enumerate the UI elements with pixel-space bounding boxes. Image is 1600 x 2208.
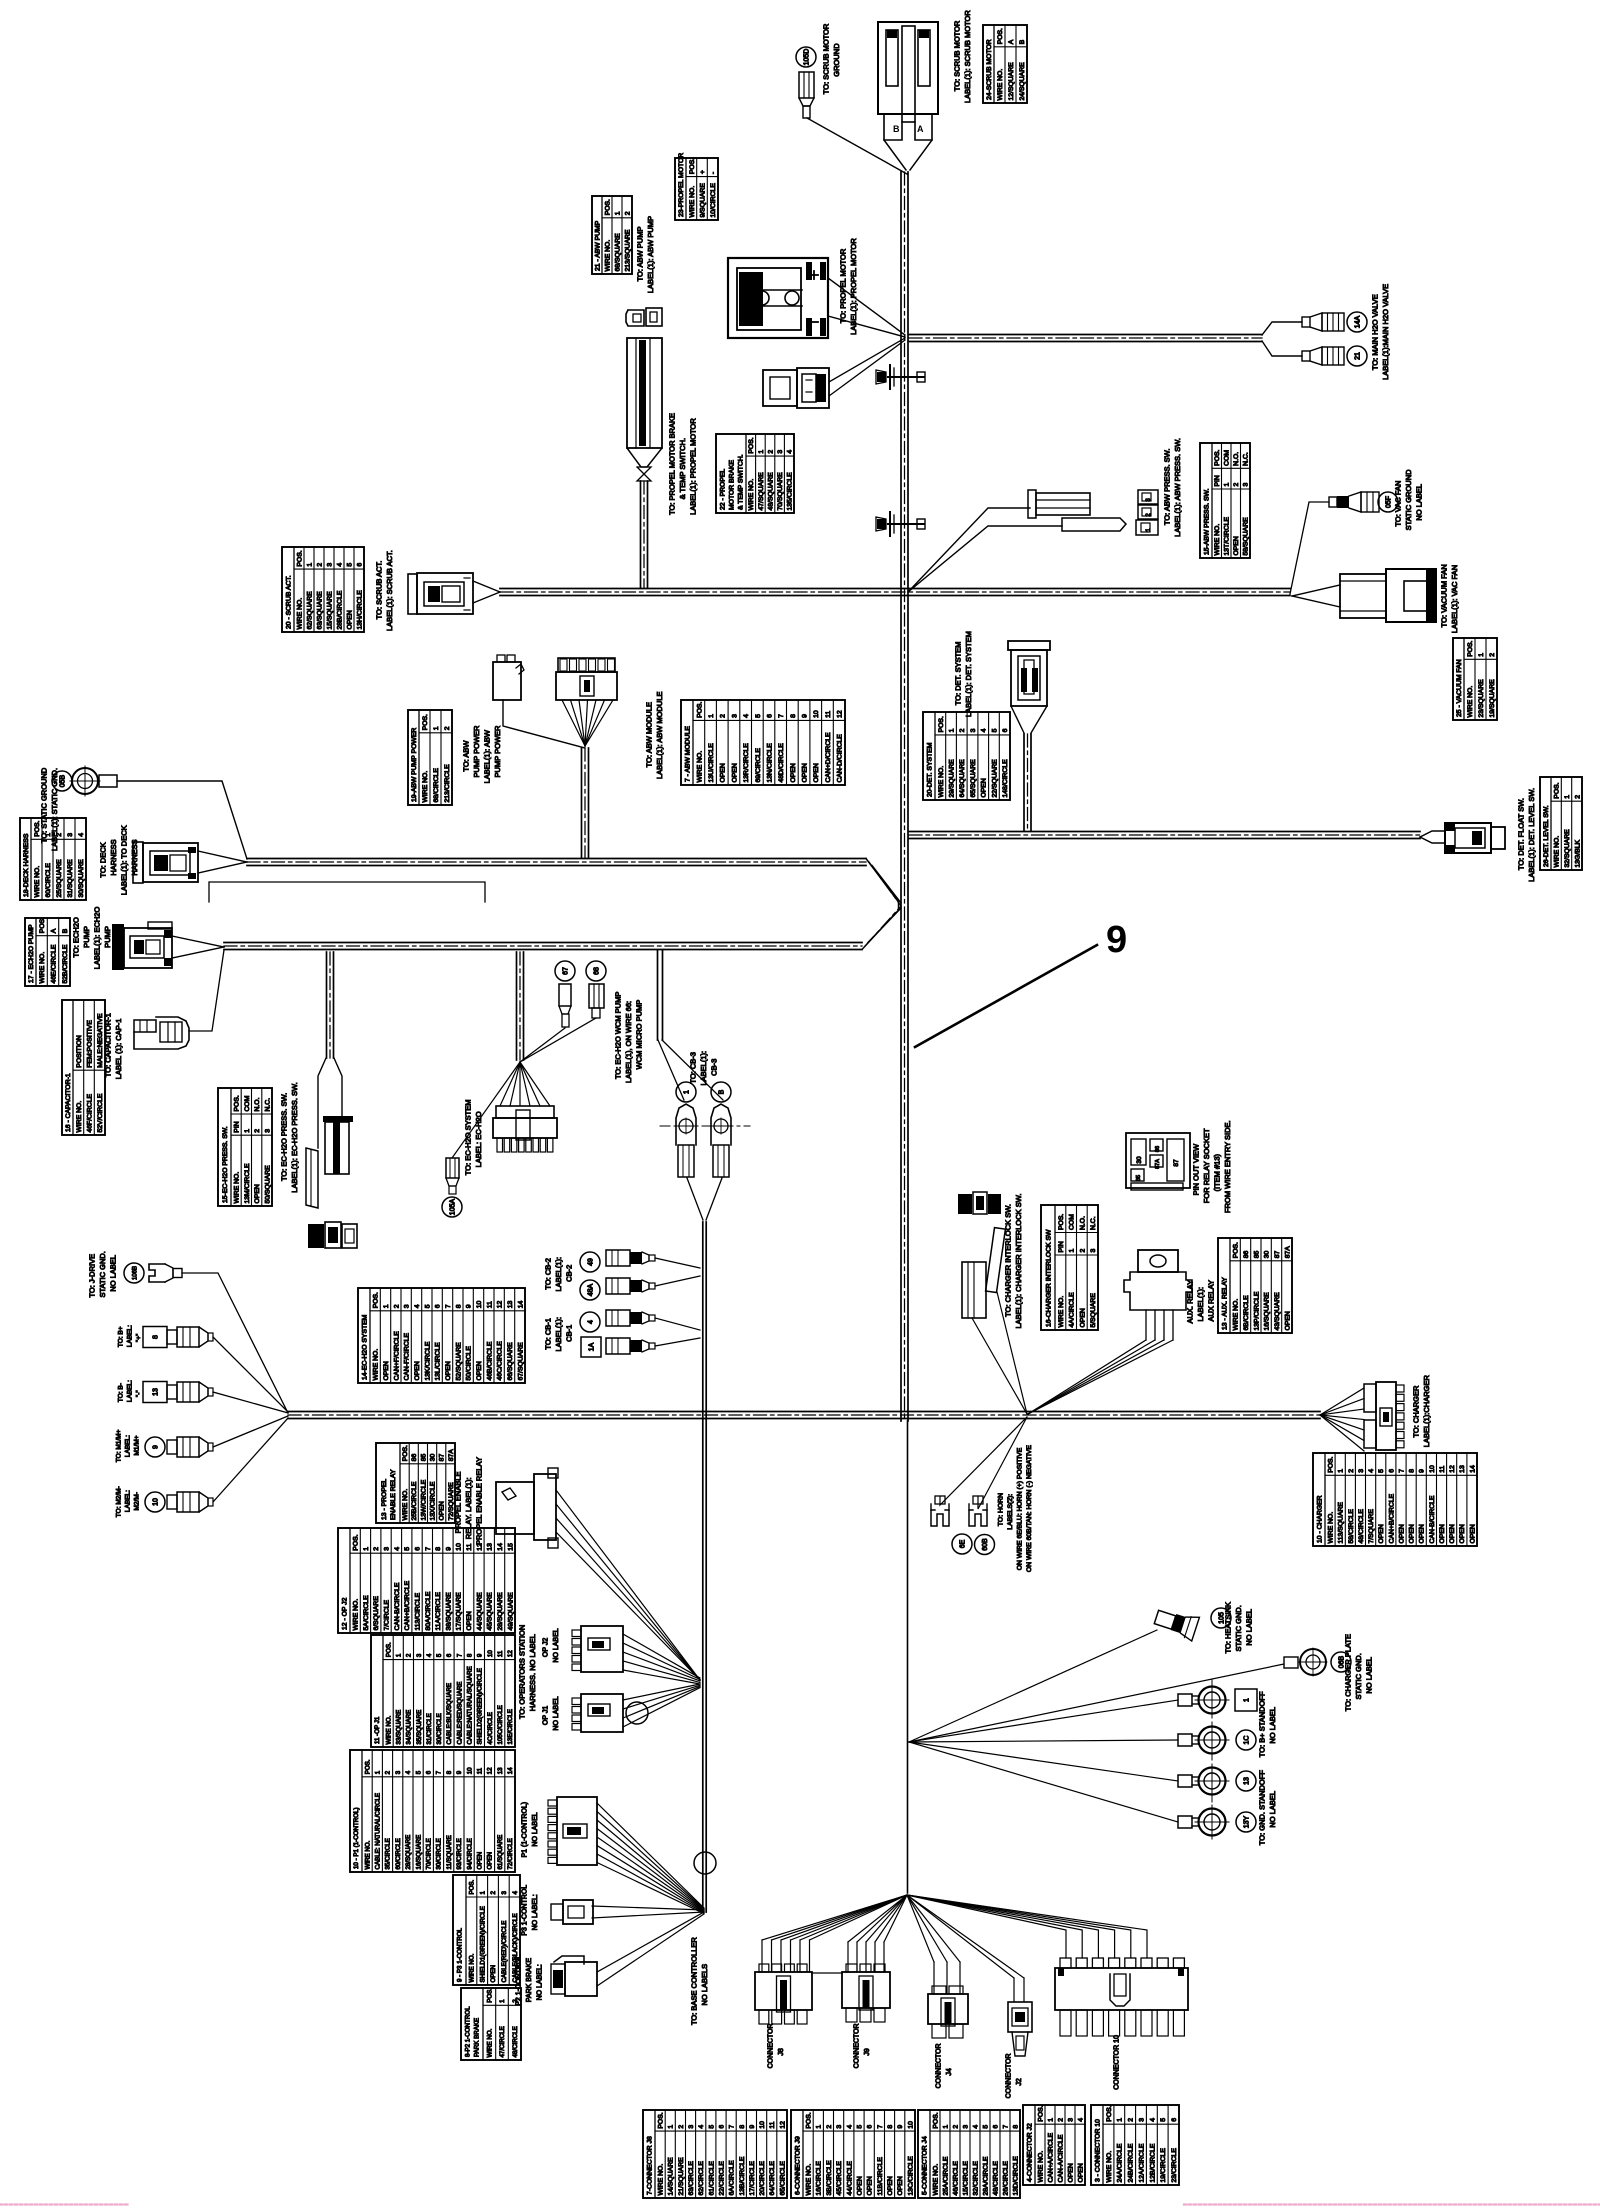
svg-text:1: 1 — [306, 563, 313, 567]
svg-text:4: 4 — [426, 1653, 433, 1657]
svg-text:2: 2 — [952, 2125, 959, 2129]
svg-text:ON WIRE 60B/TAN: HORN (-) NEGA: ON WIRE 60B/TAN: HORN (-) NEGATIVE — [1026, 1445, 1033, 1572]
svg-text:POS.: POS. — [234, 1095, 241, 1111]
svg-text:WIRE NO.: WIRE NO. — [1467, 686, 1474, 718]
svg-text:COM: COM — [244, 1095, 251, 1111]
svg-text:2: 2 — [1574, 795, 1581, 799]
svg-text:TO: SCRUB ACT.: TO: SCRUB ACT. — [375, 561, 384, 620]
svg-text:PIN: PIN — [234, 1121, 241, 1132]
svg-text:86: 86 — [411, 1454, 418, 1462]
svg-text:46C/CIRCLE: 46C/CIRCLE — [497, 1341, 504, 1381]
svg-text:46F/CIRCLE: 46F/CIRCLE — [86, 1094, 93, 1133]
switch abw press — [1028, 490, 1036, 518]
svg-text:CAN-D/CIRCLE: CAN-D/CIRCLE — [837, 734, 844, 783]
svg-text:8: 8 — [887, 2125, 894, 2129]
svg-text:WIRE NO.: WIRE NO. — [938, 766, 945, 798]
svg-text:PIN: PIN — [1058, 1241, 1065, 1252]
svg-text:OPEN: OPEN — [476, 1361, 483, 1380]
wire C10 fan — [907, 1895, 1066, 1958]
svg-text:OPEN: OPEN — [867, 2176, 874, 2195]
svg-text:64/SQUARE: 64/SQUARE — [959, 759, 966, 798]
svg-text:64/CIRCLE: 64/CIRCLE — [769, 2161, 776, 2196]
table 20-DET SYSTEM — [923, 712, 1010, 800]
svg-text:23/SQUARE: 23/SQUARE — [1478, 679, 1485, 718]
svg-text:5: 5 — [1378, 1469, 1385, 1473]
switch ec-h2o press — [318, 1058, 326, 1148]
svg-text:POS.: POS. — [469, 1879, 476, 1894]
svg-text:LABEL:: LABEL: — [126, 1380, 133, 1402]
svg-text:25B/CIRCLE: 25B/CIRCLE — [411, 1481, 418, 1520]
svg-text:LABEL(1): SCRUB MOTOR: LABEL(1): SCRUB MOTOR — [963, 10, 972, 103]
svg-text:38/SQUARE: 38/SQUARE — [445, 1592, 452, 1631]
svg-text:OPEN: OPEN — [1449, 1524, 1456, 1543]
svg-text:3: 3 — [970, 728, 977, 732]
svg-text:7-CONNECTOR J8: 7-CONNECTOR J8 — [646, 2136, 653, 2195]
svg-text:47/CIRCLE: 47/CIRCLE — [499, 2026, 506, 2057]
svg-text:AUX. RELAY: AUX. RELAY — [1186, 1280, 1195, 1324]
svg-text:48/CIRCLE: 48/CIRCLE — [1358, 1509, 1365, 1544]
node label 9 leader — [915, 945, 1097, 1047]
svg-text:22/SQUARE: 22/SQUARE — [991, 759, 998, 798]
svg-text:CAN-B/CIRCLE: CAN-B/CIRCLE — [394, 1582, 401, 1630]
svg-text:LABEL(1): ECH2O: LABEL(1): ECH2O — [93, 907, 102, 970]
wire interlock 1 — [972, 1318, 1027, 1414]
terminal 105A inline — [446, 1158, 459, 1178]
svg-text:13P/CIRCLE: 13P/CIRCLE — [1253, 1291, 1260, 1330]
svg-text:POS.: POS. — [806, 2112, 813, 2128]
svg-text:3: 3 — [1138, 2118, 1145, 2122]
wire vertical CB/control line — [702, 1222, 704, 1912]
svg-text:TO: HORN: TO: HORN — [997, 1493, 1004, 1526]
svg-text:HARNESS: HARNESS — [109, 839, 118, 875]
svg-text:POS.: POS. — [34, 820, 41, 836]
svg-text:POS.: POS. — [1214, 449, 1221, 465]
svg-text:1: 1 — [1338, 1469, 1345, 1473]
svg-text:70/SQUARE: 70/SQUARE — [777, 472, 784, 511]
svg-text:4: 4 — [972, 2125, 979, 2129]
svg-text:PUMP POWER: PUMP POWER — [472, 725, 481, 778]
svg-text:4A/CIRCLE: 4A/CIRCLE — [1069, 1292, 1076, 1328]
svg-text:7: 7 — [425, 1547, 432, 1551]
terminal static ground ring — [52, 771, 72, 791]
svg-text:A: A — [917, 124, 924, 134]
svg-text:3: 3 — [1067, 2118, 1074, 2122]
svg-text:31/SQUARE: 31/SQUARE — [67, 859, 74, 898]
svg-text:7: 7 — [729, 2125, 736, 2129]
svg-text:4: 4 — [981, 728, 988, 732]
svg-text:TO: PROPEL MOTOR: TO: PROPEL MOTOR — [839, 248, 848, 323]
connector aux relay — [1138, 1250, 1178, 1272]
svg-text:6: 6 — [426, 1770, 433, 1774]
svg-text:OPEN: OPEN — [414, 1361, 421, 1380]
svg-text:LABEL: EC-H2O: LABEL: EC-H2O — [474, 1111, 483, 1167]
svg-text:+: + — [699, 170, 706, 174]
svg-text:20 - SCRUB ACT.: 20 - SCRUB ACT. — [285, 575, 292, 629]
svg-text:48/CIRCLE: 48/CIRCLE — [512, 2026, 519, 2057]
terminal horn 6E — [935, 1496, 945, 1504]
svg-text:CAN-F/CIRCLE: CAN-F/CIRCLE — [404, 1332, 411, 1380]
svg-text:3: 3 — [326, 563, 333, 567]
svg-text:(ITEM #13): (ITEM #13) — [1213, 1153, 1222, 1191]
svg-text:13 - AUX. RELAY: 13 - AUX. RELAY — [1221, 1277, 1228, 1330]
svg-text:106B: 106B — [133, 1266, 139, 1280]
svg-text:19-ABW PUMP POWER: 19-ABW PUMP POWER — [411, 728, 418, 802]
svg-text:9: 9 — [749, 2125, 756, 2129]
svg-text:LABEL(1): DET. SYSTEM: LABEL(1): DET. SYSTEM — [964, 631, 973, 717]
connector charger interlock pins — [958, 1194, 972, 1214]
connector capacitor-1 — [134, 1020, 156, 1032]
svg-text:POS.: POS. — [1037, 2105, 1044, 2121]
svg-text:POS.: POS. — [1058, 1214, 1065, 1230]
svg-text:NO LABEL: NO LABEL — [553, 1696, 560, 1730]
svg-text:25/SQUARE: 25/SQUARE — [56, 859, 63, 898]
svg-text:13C/CIRCLE: 13C/CIRCLE — [907, 2156, 914, 2196]
svg-text:15/CIRCLE: 15/CIRCLE — [962, 2161, 969, 2196]
wire j-drive — [182, 1273, 288, 1413]
svg-text:CABLE: NATURAL/CIRCLE: CABLE: NATURAL/CIRCLE — [375, 1793, 382, 1870]
svg-text:OPEN: OPEN — [1469, 1524, 1476, 1543]
svg-text:TO: CHARGER: TO: CHARGER — [1412, 1385, 1421, 1438]
svg-text:11B/CIRCLE: 11B/CIRCLE — [877, 2157, 884, 2196]
svg-text:NO LABELS: NO LABELS — [700, 1964, 709, 2006]
svg-text:M2/M-: M2/M- — [133, 1492, 140, 1510]
svg-text:TO: DET. SYSTEM: TO: DET. SYSTEM — [954, 642, 963, 706]
svg-text:CONNECTOR: CONNECTOR — [1006, 2053, 1013, 2098]
svg-text:6: 6 — [992, 2125, 999, 2129]
svg-text:6A/CIRCLE: 6A/CIRCLE — [729, 2160, 736, 2196]
svg-text:6E: 6E — [960, 1539, 967, 1548]
terminal CB-3 1 — [676, 1082, 696, 1102]
svg-text:9: 9 — [466, 1304, 473, 1308]
svg-text:WIRE NO.: WIRE NO. — [1233, 1299, 1240, 1331]
svg-text:N.C.: N.C. — [264, 1098, 271, 1112]
table 16-CAPACITOR-1 — [62, 1000, 105, 1135]
terminal M1 9 — [145, 1437, 165, 1457]
svg-text:POS.: POS. — [422, 714, 429, 730]
svg-text:113/CIRCLE: 113/CIRCLE — [415, 1592, 422, 1630]
table 10-CHARGER — [1313, 1453, 1477, 1546]
svg-text:30/CIRCLE: 30/CIRCLE — [436, 1838, 443, 1869]
wire vertical abw module drop — [581, 748, 583, 858]
svg-text:N.O.: N.O. — [1079, 1216, 1086, 1230]
svg-text:14/SQUARE: 14/SQUARE — [668, 2157, 675, 2196]
svg-text:1: 1 — [684, 1090, 691, 1094]
wire CB-3 dashline — [660, 1125, 750, 1127]
svg-text:WCM MICRO PUMP: WCM MICRO PUMP — [635, 1000, 644, 1070]
svg-text:LABEL(1):: LABEL(1): — [554, 1317, 563, 1352]
svg-text:9: 9 — [897, 2125, 904, 2129]
svg-text:93/CIRCLE: 93/CIRCLE — [456, 1838, 463, 1869]
svg-text:28A/CIRCLE: 28A/CIRCLE — [982, 2156, 989, 2195]
svg-text:NO LABEL: NO LABEL — [109, 1255, 118, 1292]
svg-text:3B/CIRCLE: 3B/CIRCLE — [826, 2160, 833, 2196]
svg-text:4: 4 — [787, 450, 794, 454]
svg-text:TO: DECK: TO: DECK — [99, 842, 108, 877]
svg-text:12B/CIRCLE: 12B/CIRCLE — [1149, 2143, 1156, 2182]
svg-text:24-SCRUB MOTOR: 24-SCRUB MOTOR — [986, 39, 993, 100]
svg-text:13T/CIRCLE: 13T/CIRCLE — [1224, 517, 1231, 556]
svg-text:61/SQUARE: 61/SQUARE — [497, 1835, 504, 1870]
svg-text:13M/CIRCLE: 13M/CIRCLE — [244, 1163, 251, 1204]
svg-text:7: 7 — [436, 1770, 443, 1774]
svg-text:33/SQUARE: 33/SQUARE — [396, 1710, 403, 1745]
svg-text:45/CIRCLE: 45/CIRCLE — [836, 2161, 843, 2196]
svg-text:4: 4 — [846, 2125, 853, 2129]
svg-text:1: 1 — [949, 728, 956, 732]
svg-text:TO: B+ STANDOFF: TO: B+ STANDOFF — [1258, 1691, 1267, 1757]
svg-text:WIRE NO.: WIRE NO. — [1058, 1296, 1065, 1328]
svg-text:4: 4 — [405, 1770, 412, 1774]
svg-text:POS.: POS. — [385, 1642, 392, 1657]
svg-text:1: 1 — [1069, 1249, 1076, 1253]
svg-text:P2 1-CONTROL: P2 1-CONTROL — [516, 1955, 523, 2006]
svg-text:10: 10 — [907, 2121, 914, 2129]
svg-text:J9: J9 — [864, 2048, 871, 2056]
svg-text:21: 21 — [1355, 352, 1362, 360]
svg-text:TO: SCRUB MOTOR: TO: SCRUB MOTOR — [822, 23, 831, 94]
svg-text:15-ABW PRESS. SW.: 15-ABW PRESS. SW. — [1203, 488, 1210, 555]
connector OP J2 — [572, 1630, 581, 1637]
connector scrub motor — [878, 22, 938, 114]
svg-text:CONNECTOR: CONNECTOR — [854, 2023, 861, 2068]
svg-text:OPEN: OPEN — [790, 763, 797, 782]
svg-text:POS.: POS. — [696, 702, 703, 718]
svg-text:FEM:POSITIVE: FEM:POSITIVE — [86, 1020, 93, 1068]
svg-text:11: 11 — [1439, 1466, 1446, 1473]
svg-text:4: 4 — [743, 714, 750, 718]
svg-text:J8: J8 — [778, 2048, 785, 2056]
connector P3 — [551, 1904, 563, 1920]
svg-text:31/CIRCLE: 31/CIRCLE — [426, 1713, 433, 1744]
svg-text:PIN OUT VIEW: PIN OUT VIEW — [1192, 1143, 1201, 1195]
svg-text:POS.: POS. — [373, 1292, 380, 1308]
svg-text:OPEN: OPEN — [346, 610, 353, 629]
svg-text:10/CIRCLE: 10/CIRCLE — [710, 183, 717, 218]
svg-text:5: 5 — [346, 563, 353, 567]
wire J2 fan — [907, 1895, 1014, 1978]
svg-text:MOTOR BRAKE: MOTOR BRAKE — [728, 459, 735, 510]
svg-text:POS.: POS. — [1467, 640, 1474, 656]
svg-text:B: B — [62, 928, 69, 933]
svg-text:CAN+D/CIRCLE: CAN+D/CIRCLE — [825, 732, 832, 783]
svg-text:6: 6 — [415, 1547, 422, 1551]
connector OP J1 — [572, 1698, 581, 1705]
svg-text:NO LABEL: NO LABEL — [1415, 484, 1424, 521]
svg-text:3: 3 — [1358, 1469, 1365, 1473]
svg-text:47/SQUARE: 47/SQUARE — [758, 472, 765, 511]
svg-text:87: 87 — [439, 1454, 446, 1462]
svg-text:WIRE NO.: WIRE NO. — [373, 1349, 380, 1381]
svg-text:6: 6 — [356, 563, 363, 567]
svg-text:1: 1 — [1224, 483, 1231, 487]
svg-text:5: 5 — [755, 714, 762, 718]
svg-text:OPEN: OPEN — [487, 1852, 494, 1870]
svg-text:POSITION: POSITION — [76, 1035, 83, 1068]
svg-text:A: A — [1008, 39, 1015, 44]
wire ring13Y — [909, 1742, 1178, 1822]
svg-text:LABEL(1): ABW PUMP: LABEL(1): ABW PUMP — [646, 216, 655, 293]
svg-text:8: 8 — [455, 1304, 462, 1308]
wire J4 fan — [907, 1895, 934, 1962]
svg-text:WIRE NO.: WIRE NO. — [689, 186, 696, 218]
svg-text:PUMP POWER: PUMP POWER — [493, 725, 502, 778]
svg-text:WIRE NO.: WIRE NO. — [604, 240, 611, 272]
svg-text:19/CIRCLE: 19/CIRCLE — [1160, 2148, 1167, 2183]
svg-text:NO LABEL: NO LABEL — [1268, 1707, 1277, 1744]
svg-text:7: 7 — [1398, 1469, 1405, 1473]
svg-text:85: 85 — [1136, 1175, 1142, 1181]
svg-text:OPEN: OPEN — [490, 1965, 497, 1983]
svg-text:LABEL(1): PROPEL MOTOR: LABEL(1): PROPEL MOTOR — [689, 418, 698, 515]
svg-text:OP J1: OP J1 — [543, 1706, 550, 1725]
svg-text:OPEN: OPEN — [813, 763, 820, 782]
svg-text:TO: EC-H2O SYSTEM: TO: EC-H2O SYSTEM — [464, 1099, 473, 1175]
wire brake 2 — [829, 340, 905, 396]
svg-text:POS.: POS. — [932, 2112, 939, 2128]
wire branch scrub-act / vac-fan — [500, 588, 1290, 590]
svg-text:25A/CIRCLE: 25A/CIRCLE — [942, 2156, 949, 2195]
wire ec-h2o system fan — [500, 1062, 520, 1106]
svg-text:LABEL(1): EC-H2O PRESS. SW.: LABEL(1): EC-H2O PRESS. SW. — [290, 1082, 299, 1192]
svg-text:7/SQUARE: 7/SQUARE — [1368, 1509, 1375, 1544]
svg-text:6: 6 — [1171, 2118, 1178, 2122]
svg-text:87: 87 — [1274, 1251, 1281, 1259]
svg-text:OPEN: OPEN — [731, 763, 738, 782]
svg-text:LABEL(1): VAC FAN: LABEL(1): VAC FAN — [1450, 565, 1459, 633]
svg-text:6B/CIRCLE: 6B/CIRCLE — [1243, 1295, 1250, 1331]
connector det system — [1008, 641, 1050, 650]
svg-text:TO: OPERATORS STATION: TO: OPERATORS STATION — [518, 1625, 527, 1719]
wire propel motor + — [828, 278, 905, 335]
svg-text:2: 2 — [254, 1129, 261, 1133]
wire interlock 2 — [997, 1292, 1027, 1414]
svg-text:5: 5 — [424, 1304, 431, 1308]
svg-text:OPEN: OPEN — [981, 778, 988, 797]
svg-text:70/CIRCLE: 70/CIRCLE — [426, 1838, 433, 1869]
wire aux relay legs — [1028, 1340, 1146, 1414]
svg-text:2: 2 — [316, 563, 323, 567]
svg-text:52V/CIRCLE: 52V/CIRCLE — [97, 1093, 104, 1132]
table 11-OP J1 — [371, 1635, 515, 1747]
svg-text:TO: CHARGER PLATE: TO: CHARGER PLATE — [1344, 1634, 1353, 1711]
svg-text:OPEN: OPEN — [1284, 1311, 1291, 1330]
svg-text:PARK BRAKE: PARK BRAKE — [526, 1958, 533, 2003]
svg-text:49/SQUARE: 49/SQUARE — [507, 1592, 514, 1631]
svg-text:WIRE NO.: WIRE NO. — [1214, 524, 1221, 556]
svg-text:OPEN: OPEN — [1398, 1524, 1405, 1543]
table 13-AUX RELAY — [1218, 1238, 1292, 1333]
svg-text:10: 10 — [1429, 1465, 1436, 1473]
svg-text:12A/CIRCLE: 12A/CIRCLE — [1138, 2143, 1145, 2182]
svg-text:4C/CIRCLE: 4C/CIRCLE — [487, 1712, 494, 1744]
svg-text:1: 1 — [396, 1653, 403, 1657]
svg-text:19/SQUARE: 19/SQUARE — [1489, 679, 1496, 718]
table 4-CONNECTOR J2 — [1023, 2105, 1085, 2185]
svg-text:POS.: POS. — [604, 199, 611, 215]
svg-text:22/CIRCLE: 22/CIRCLE — [718, 2161, 725, 2196]
svg-text:5: 5 — [436, 1653, 443, 1657]
svg-text:TO: CB-2: TO: CB-2 — [544, 1258, 553, 1290]
svg-text:45/SQUARE: 45/SQUARE — [487, 1592, 494, 1631]
bracket shield marker — [209, 882, 485, 902]
svg-text:WIRE NO.: WIRE NO. — [39, 952, 46, 984]
svg-text:SHIELD1(GREEN)/CIRCLE: SHIELD1(GREEN)/CIRCLE — [479, 1906, 486, 1982]
svg-text:TO: GND. STANDOFF: TO: GND. STANDOFF — [1258, 1770, 1267, 1846]
svg-text:HARNESS. NO LABEL: HARNESS. NO LABEL — [528, 1634, 537, 1711]
svg-text:"+": "+" — [135, 1333, 142, 1342]
connector abw pump power — [493, 662, 521, 700]
svg-text:OPEN: OPEN — [1459, 1524, 1466, 1543]
svg-text:60B: 60B — [982, 1538, 989, 1551]
svg-text:OPEN: OPEN — [1378, 1524, 1385, 1543]
svg-text:2: 2 — [1057, 2118, 1064, 2122]
svg-text:HARNESS: HARNESS — [130, 839, 139, 875]
svg-text:LABELS(2):: LABELS(2): — [1007, 1494, 1014, 1530]
wire CB-3 feed — [657, 950, 659, 1040]
wire vertical det system drop — [1023, 734, 1025, 831]
svg-text:12: 12 — [1449, 1465, 1456, 1473]
wire CB-2 merge — [655, 1258, 700, 1268]
svg-text:14: 14 — [517, 1301, 524, 1309]
svg-text:24/SQUARE: 24/SQUARE — [1019, 62, 1026, 101]
svg-text:"-": "-" — [135, 1390, 142, 1397]
svg-text:13: 13 — [1459, 1465, 1466, 1473]
svg-text:30: 30 — [1264, 1251, 1271, 1259]
svg-text:16/SQUARE: 16/SQUARE — [415, 1835, 422, 1870]
svg-text:17 - ECH2O PUMP: 17 - ECH2O PUMP — [28, 924, 35, 983]
svg-text:1: 1 — [816, 2125, 823, 2129]
connector propel key — [626, 310, 644, 326]
terminal M2 10 — [145, 1492, 165, 1512]
svg-text:05B: 05B — [60, 774, 67, 787]
svg-text:1: 1 — [758, 450, 765, 454]
connector propel brake probe — [627, 338, 662, 448]
svg-text:4: 4 — [1149, 2118, 1156, 2122]
svg-text:2: 2 — [373, 1547, 380, 1551]
svg-text:13N/CIRCLE: 13N/CIRCLE — [766, 743, 773, 783]
svg-text:68/CIRCLE: 68/CIRCLE — [433, 768, 440, 803]
svg-text:9: 9 — [1419, 1469, 1426, 1473]
svg-text:213/SQUARE: 213/SQUARE — [624, 229, 631, 271]
connector J8 — [755, 1972, 812, 2010]
connector ec-h2o system — [496, 1106, 554, 1118]
svg-text:STATIC GND.: STATIC GND. — [1354, 1653, 1363, 1699]
svg-text:10: 10 — [153, 1498, 160, 1506]
svg-text:TO: M1/M+: TO: M1/M+ — [115, 1429, 122, 1462]
svg-text:P1 (1-CONTROL): P1 (1-CONTROL) — [522, 1802, 529, 1858]
svg-text:TO: EC-H2O PRESS. SW.: TO: EC-H2O PRESS. SW. — [280, 1093, 289, 1181]
svg-text:8-P2 1-CONTROL: 8-P2 1-CONTROL — [465, 2006, 472, 2057]
svg-text:SHIELD2(GREEN)/CIRCLE: SHIELD2(GREEN)/CIRCLE — [477, 1668, 484, 1744]
svg-text:1: 1 — [383, 1304, 390, 1308]
wire main vertical trunk — [900, 172, 902, 1421]
svg-text:1: 1 — [1564, 795, 1571, 799]
terminal CB-2 49 — [580, 1252, 600, 1272]
svg-text:10: 10 — [456, 1543, 463, 1551]
svg-text:CAN+F/CIRCLE: CAN+F/CIRCLE — [393, 1331, 400, 1381]
svg-text:13L/CIRCLE: 13L/CIRCLE — [435, 1342, 442, 1381]
svg-text:5: 5 — [708, 2125, 715, 2129]
terminal wcm 67 — [555, 961, 575, 981]
svg-text:1: 1 — [375, 1770, 382, 1774]
table 20-SCRUB ACT — [282, 547, 364, 632]
table 24-SCRUB MOTOR — [983, 25, 1027, 103]
terminal ring 13Y — [1178, 1816, 1192, 1828]
connector P2 park brake — [554, 1956, 584, 1964]
svg-text:CABLE:RED/SQUARE: CABLE:RED/SQUARE — [456, 1682, 463, 1745]
svg-text:48A: 48A — [588, 1283, 595, 1296]
svg-text:69/CIRCLE: 69/CIRCLE — [755, 748, 762, 783]
